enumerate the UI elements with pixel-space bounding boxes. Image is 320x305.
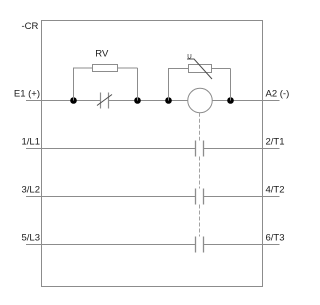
svg-text:A2 (-): A2 (-) (266, 88, 290, 99)
capacitor suppressor diagonal stroke (97, 95, 112, 106)
node E1 junction dot left of RV (70, 97, 77, 104)
capacitor suppressor plates (101, 93, 109, 109)
wire 3/L2-4/T2 (26, 196, 280, 198)
svg-text:6/T3: 6/T3 (266, 232, 285, 243)
node junction dot right of varistor / A2 (227, 97, 234, 104)
resistor RV body (93, 65, 118, 72)
svg-text:4/T2: 4/T2 (266, 184, 285, 195)
svg-text:3/L2: 3/L2 (22, 184, 41, 195)
svg-text:2/T1: 2/T1 (266, 136, 285, 147)
contact main pole 3 (196, 237, 204, 253)
contactor enclosure box (42, 21, 263, 287)
svg-text:E1 (+): E1 (+) (14, 88, 40, 99)
varistor diagonal with foot (187, 59, 212, 79)
svg-text:RV: RV (95, 48, 109, 59)
wire RV branch (74, 68, 138, 101)
contact main pole 2 (196, 189, 204, 205)
varistor U body (189, 65, 212, 73)
wire 5/L3-6/T3 (26, 244, 280, 246)
contact main pole 1 (196, 141, 204, 157)
wire varistor branch (169, 69, 231, 101)
svg-text:U: U (187, 53, 191, 60)
node junction dot left of varistor (165, 97, 172, 104)
wire 1/L1-2/T1 (26, 148, 280, 150)
op coil A1-A2 circle (188, 88, 213, 113)
node junction dot right of RV (134, 97, 141, 104)
mechanical linkage dashed line (199, 113, 201, 237)
svg-text:1/L1: 1/L1 (22, 136, 41, 147)
wire E1-A2 coil line (26, 100, 280, 102)
svg-text:5/L3: 5/L3 (22, 232, 41, 243)
svg-text:-CR: -CR (22, 21, 39, 32)
